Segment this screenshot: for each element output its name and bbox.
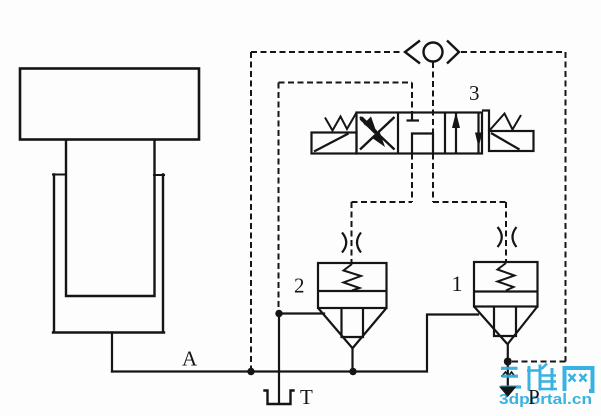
svg-text:A: A — [182, 347, 198, 371]
svg-text:T: T — [300, 385, 313, 409]
svg-text:2: 2 — [294, 274, 305, 298]
svg-text:P: P — [528, 385, 540, 409]
svg-text:3: 3 — [469, 81, 480, 105]
svg-text:3dportal.cn: 3dportal.cn — [499, 391, 592, 408]
svg-text:1: 1 — [452, 271, 463, 296]
